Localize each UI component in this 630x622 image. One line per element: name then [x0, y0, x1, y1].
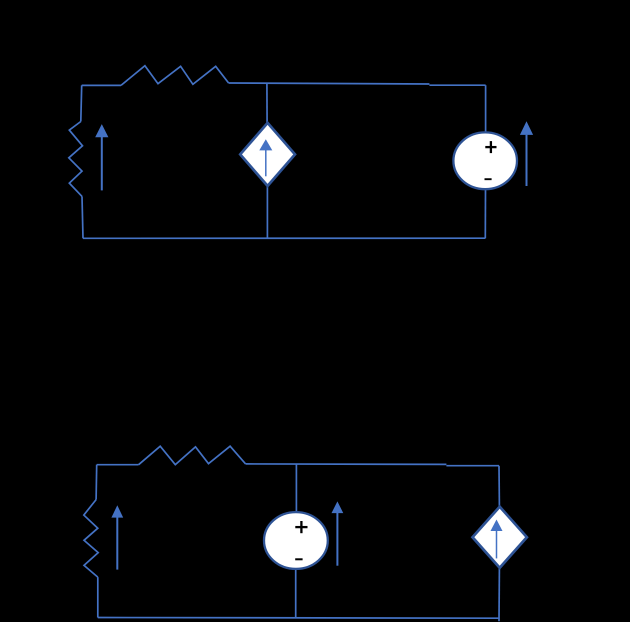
minus label of V2: [295, 558, 302, 560]
resistor R4 (bottom circuit, top horizontal zigzag): [139, 446, 246, 465]
wire: top circuit right vertical upper (to V1 top): [485, 85, 487, 132]
resistor R2 (top circuit, top horizontal zigzag): [121, 66, 229, 86]
wire: top circuit left vertical upper segment: [80, 85, 83, 121]
plus label of V1: [485, 141, 496, 153]
resistor R3 (bottom circuit, left vertical zigzag): [84, 500, 98, 577]
current arrow i3 (bottom circuit, left): [111, 505, 123, 569]
plus label of V2: [295, 521, 307, 533]
wire: bottom circuit top horizontal middle segment: [246, 463, 447, 466]
arrow inside diamond U1: [259, 139, 272, 176]
voltage source V2 (bottom circuit circle): [264, 512, 328, 569]
wire: top circuit bottom horizontal: [83, 237, 485, 239]
wire: top circuit right vertical lower (V1 bottom to bottom wire): [484, 189, 486, 238]
resistor R1 (top circuit, left vertical zigzag): [69, 122, 83, 197]
minus label of V1: [485, 178, 492, 180]
wire: bottom circuit left vertical upper segment: [95, 465, 98, 500]
wire: bottom circuit middle branch lower (V2 bottom to bottom wire): [295, 569, 297, 618]
wire: top circuit left vertical lower segment: [82, 196, 83, 238]
current arrow i2 (top circuit, right of V1): [520, 121, 533, 186]
wire: top circuit top horizontal middle segment: [229, 83, 430, 84]
voltage source V1 (top circuit circle): [453, 132, 517, 189]
current arrow i4 (bottom circuit, right of V2): [332, 501, 344, 565]
dependent current source U2 (bottom circuit diamond): [473, 507, 527, 568]
wire: top circuit top-left horizontal segment: [82, 84, 121, 86]
wire: bottom circuit top horizontal right segment (slight step): [446, 465, 499, 467]
current arrow i1 (top circuit, left): [95, 124, 108, 190]
wire: bottom circuit top-left horizontal segment: [97, 464, 139, 466]
wire: bottom circuit bottom horizontal: [98, 617, 499, 620]
wire: top circuit top horizontal right segment (slight step): [429, 84, 485, 86]
wire: bottom circuit left vertical lower segment: [97, 577, 99, 617]
wire: top circuit middle branch lower (diamond bottom to bottom wire): [266, 186, 268, 238]
wire: top circuit middle branch upper (top wire to diamond top): [266, 83, 268, 123]
wire: bottom circuit right vertical lower (diamond bottom to bottom wire, small overshoot): [498, 568, 500, 622]
dependent current source U1 (top circuit diamond): [240, 123, 295, 186]
arrow inside diamond U2: [491, 520, 503, 559]
wire: bottom circuit right vertical upper (to diamond top): [498, 466, 500, 507]
wire: bottom circuit middle branch upper (top wire to V2 top): [295, 464, 297, 513]
